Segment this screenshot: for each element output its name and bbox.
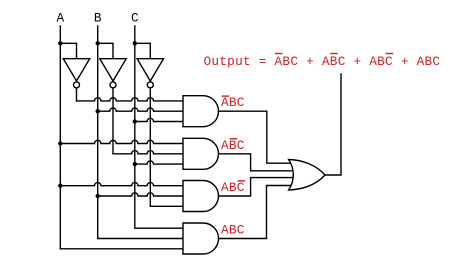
and-gate AND2 (term A B-not C) — [183, 138, 219, 169]
wire C-not to AND3 input3 — [150, 205, 183, 207]
node junction A to AND3 — [58, 184, 62, 188]
label overbar on B of term2 — [330, 53, 338, 54]
svg-text:ABC: ABC — [221, 180, 245, 195]
wire B-not vertical from U2 — [112, 88, 114, 154]
inverter U3 (C-not) — [137, 59, 163, 88]
label overbar on A of term1 — [275, 53, 283, 54]
wire input A vertical down to AND4 — [60, 26, 183, 249]
wire AND1 output to OR input1 — [219, 111, 297, 163]
wire B-not to AND2 input2 with hops — [113, 151, 183, 154]
wire B to AND3 input2 with hops — [98, 193, 183, 196]
svg-text:B: B — [94, 11, 102, 26]
wire branch B to inverter U2 — [98, 43, 113, 58]
wire A-not vertical from U1 — [76, 88, 78, 101]
node junction B to AND1 — [96, 109, 100, 113]
svg-text:ABC: ABC — [221, 138, 245, 153]
node junction C to AND1 — [133, 119, 137, 123]
label overbar AND3 C — [238, 180, 246, 181]
svg-text:A: A — [56, 11, 64, 26]
node junction B to AND3 — [96, 194, 100, 198]
wire input C vertical down to AND4 — [135, 26, 183, 228]
and-gate AND3 (term A B C-not) — [183, 181, 219, 212]
svg-text:C: C — [131, 11, 139, 26]
node junction A to AND2 — [58, 141, 62, 145]
node junction A-inverter tap — [58, 41, 62, 45]
or-gate OR1 — [289, 160, 325, 191]
wire branch C to inverter U3 — [135, 43, 151, 58]
svg-text:ABC: ABC — [221, 95, 245, 110]
label overbar on C of term3 — [386, 53, 394, 54]
svg-text:ABC: ABC — [221, 223, 245, 238]
node junction C-inverter tap — [133, 41, 137, 45]
wire C-not vertical from U3 — [149, 88, 151, 206]
and-gate AND1 (term A-not B C) — [183, 96, 219, 127]
wire A to AND3 input1 with hops — [60, 183, 183, 186]
wire A-not to AND1 input1 with hops — [77, 98, 184, 101]
wire B to AND1 input2 with hops — [98, 108, 183, 111]
wire branch A to inverter U1 — [60, 43, 76, 58]
svg-text:Output = ABC + ABC + ABC + ABC: Output = ABC + ABC + ABC + ABC — [204, 54, 441, 69]
wire AND2 output to OR input2 — [219, 154, 297, 171]
inverter U1 (A-not) — [63, 59, 89, 88]
wire AND4 output to OR input4 — [219, 186, 297, 239]
inverter U2 (B-not) — [100, 59, 126, 88]
and-gate AND4 (term A B C) — [183, 223, 219, 254]
node junction C to AND2 — [133, 162, 137, 166]
wire A to AND2 input1 with hops — [60, 140, 183, 143]
label overbar AND2 B — [230, 138, 238, 139]
node junction B-inverter tap — [96, 41, 100, 45]
wire AND3 output to OR input3 — [219, 178, 297, 196]
wire OR1 output to Output node — [325, 74, 341, 175]
wire C to AND2 input3 with hop — [135, 161, 183, 164]
wire C to AND1 input3 with hop — [135, 118, 183, 121]
wire input B vertical down to AND4 — [98, 26, 183, 239]
label overbar AND1 A — [222, 95, 230, 96]
